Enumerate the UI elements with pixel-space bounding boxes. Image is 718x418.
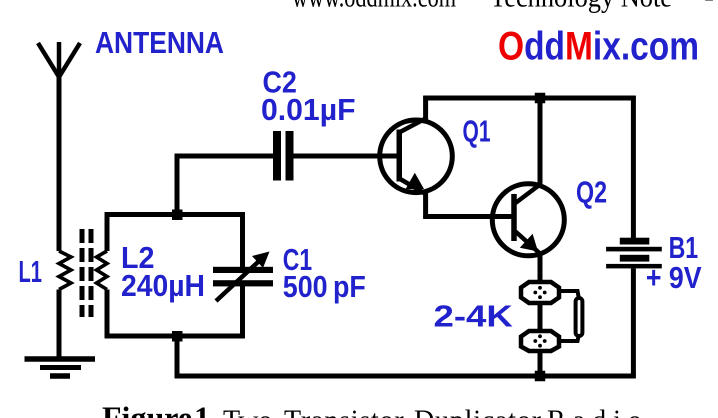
tank circuit top wire bbox=[105, 212, 245, 217]
battery B1 plates bbox=[606, 238, 662, 269]
transistor Q1 bbox=[380, 119, 453, 195]
svg-text:Radio: Radio bbox=[547, 406, 649, 418]
svg-text:Q1: Q1 bbox=[463, 114, 491, 149]
svg-text:1.: 1. bbox=[194, 400, 218, 418]
header line (cut off at top): www.oddmix.com - Technology Note bbox=[292, 0, 718, 14]
svg-text:240µH: 240µH bbox=[121, 268, 205, 303]
C1 trimmer arrow bbox=[216, 262, 258, 301]
wire: antenna mast down to L1 bbox=[57, 76, 62, 251]
capacitor C2 plates bbox=[273, 131, 294, 181]
Q2 emitter arrow bbox=[520, 234, 538, 252]
earphone headband bbox=[576, 298, 583, 336]
node B junction dot (tank bottom) bbox=[172, 331, 183, 342]
wire: bottom rail bbox=[175, 374, 636, 379]
svg-text:L1: L1 bbox=[19, 254, 43, 289]
svg-text:2-4K: 2-4K bbox=[434, 299, 514, 334]
svg-text:- RAD: - RAD bbox=[704, 0, 718, 14]
tank right wire upper bbox=[240, 212, 245, 267]
wire: earphone down to bottom rail bbox=[538, 351, 543, 378]
svg-text:O: O bbox=[498, 25, 524, 69]
svg-text:ANTENNA: ANTENNA bbox=[95, 25, 224, 60]
wire: tank top node up to C2 level bbox=[175, 154, 180, 216]
svg-text:dd: dd bbox=[524, 25, 565, 69]
earphone top capsule bbox=[521, 282, 559, 303]
node D junction dot (bottom rail) bbox=[535, 371, 546, 382]
svg-text:ix.com: ix.com bbox=[593, 25, 699, 69]
wire: top rail bbox=[423, 96, 635, 101]
transistor Q2 bbox=[492, 184, 564, 256]
wire: Q1 collector up to top rail bbox=[423, 96, 428, 120]
earphone headband bottom connector bbox=[561, 334, 579, 341]
wire: Q2 emitter down to earphone bbox=[538, 252, 543, 282]
tank bottom wire bbox=[105, 334, 245, 339]
wire: rail node down to Q2 collector bbox=[538, 96, 543, 185]
wire: Q1 emitter to Q2 base bbox=[423, 214, 514, 219]
svg-text:+ 9V: + 9V bbox=[646, 260, 702, 295]
ground bbox=[25, 359, 96, 376]
node A junction dot (tank top) bbox=[172, 210, 183, 221]
svg-text:Technology Note: Technology Note bbox=[490, 0, 672, 14]
svg-text:M: M bbox=[565, 25, 593, 69]
svg-text:0.01µF: 0.01µF bbox=[261, 92, 356, 127]
wire: C2 left lead bbox=[175, 154, 273, 159]
earphone top dots bbox=[533, 286, 546, 299]
transformer core bbox=[82, 229, 91, 317]
svg-text:www.oddmix.com: www.oddmix.com bbox=[292, 0, 456, 14]
tank left wire upper bbox=[105, 212, 110, 251]
svg-text:Figure: Figure bbox=[102, 400, 192, 418]
inductor L2 bbox=[97, 251, 108, 290]
Q1 emitter arrow bbox=[405, 173, 424, 190]
svg-text:Duplicator: Duplicator bbox=[414, 406, 542, 418]
wire: L1 down to ground bbox=[57, 290, 62, 359]
node C junction dot (top rail) bbox=[535, 93, 546, 104]
wire: C2 right lead to Q1 base bbox=[294, 154, 400, 159]
tank right wire lower bbox=[240, 286, 245, 338]
tank left wire lower bbox=[105, 290, 110, 339]
svg-text:Transistor: Transistor bbox=[284, 406, 405, 418]
earphone bottom dots bbox=[533, 334, 546, 347]
inductor L1 bbox=[59, 251, 71, 290]
wire: battery top lead bbox=[631, 96, 636, 241]
OddMix.com logo bbox=[498, 25, 699, 69]
figure caption (cut off at bottom) bbox=[102, 400, 649, 418]
wire: tank bottom node down to rail bbox=[175, 336, 180, 378]
svg-text:Two: Two bbox=[223, 406, 272, 418]
antenna symbol bbox=[38, 42, 80, 78]
wire: Q1 emitter down bbox=[423, 192, 428, 219]
svg-text:500 pF: 500 pF bbox=[283, 269, 366, 304]
wire: battery bottom lead bbox=[631, 268, 636, 378]
wire: between earphones bbox=[538, 303, 543, 331]
earphone headband top connector bbox=[561, 291, 579, 299]
svg-text:Q2: Q2 bbox=[576, 175, 607, 210]
capacitor C1 plates bbox=[213, 267, 273, 287]
earphone bottom capsule bbox=[521, 331, 559, 351]
